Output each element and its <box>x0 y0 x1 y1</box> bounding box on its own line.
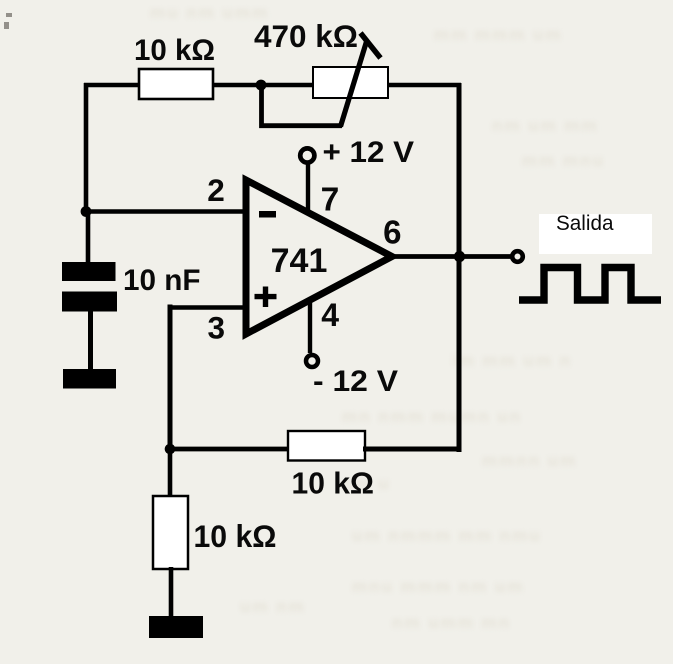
potentiometer P1 wiper end tick <box>361 33 381 58</box>
wire: pin 3 drop to divider node <box>168 305 173 453</box>
svg-text:741: 741 <box>271 242 328 280</box>
svg-text:mnu mmm nm um: mnu mmm nm um <box>352 577 524 596</box>
capacitor C 10 nF top plate <box>62 262 116 281</box>
svg-text:10 kΩ: 10 kΩ <box>292 466 375 501</box>
svg-text:mmnn um: mmnn um <box>482 451 577 470</box>
wire: pin 4 supply wire <box>308 298 312 353</box>
svg-text:4: 4 <box>321 297 339 333</box>
svg-text:10 nF: 10 nF <box>123 264 201 297</box>
wire: left vertical from top corner down to inverting-input node <box>84 83 89 214</box>
terminal: +12V open circle <box>300 148 314 162</box>
ground (capacitor) <box>63 369 116 389</box>
wire: divider resistor to ground <box>169 567 174 618</box>
svg-text:470 kΩ: 470 kΩ <box>254 18 358 54</box>
svg-text:+ 12 V: + 12 V <box>323 136 415 169</box>
resistor R 10 kΩ (top feedback) <box>139 69 213 99</box>
svg-text:6: 6 <box>383 214 401 251</box>
svg-text:7: 7 <box>321 182 340 219</box>
wire: right vertical from top corner down to bottom feedback corner <box>457 83 462 452</box>
svg-text:um nmmm mm nmu: um nmmm mm nmu <box>352 526 542 545</box>
svg-text:3: 3 <box>208 310 226 346</box>
potentiometer P1 470 kΩ body <box>313 67 388 98</box>
svg-text:10 kΩ: 10 kΩ <box>134 34 215 67</box>
svg-text:um nm: um nm <box>240 597 306 616</box>
node: output junction dot <box>454 251 465 262</box>
node: divider junction dot <box>165 444 176 455</box>
op-amp U1 non-inverting input plus sign <box>255 287 277 308</box>
wire: top horizontal net from left corner to right corner <box>84 83 461 88</box>
svg-text:Salida: Salida <box>556 212 614 235</box>
square wave output symbol <box>519 268 661 301</box>
wire: feedback resistor to right vertical <box>363 447 462 452</box>
potentiometer P1 wiper arm <box>341 42 367 127</box>
svg-text:- 12 V: - 12 V <box>313 365 398 398</box>
node: inverting input junction dot <box>81 206 92 217</box>
wire: pin 3 input wire <box>169 305 250 310</box>
svg-text:mm mmm um: mm mmm um <box>434 25 563 44</box>
white label panel behind Salida <box>539 214 652 254</box>
wire: divider node down to lower resistor <box>168 449 173 498</box>
svg-text:mu nm umm: mu nm umm <box>150 3 269 22</box>
op-amp U1 741 body <box>246 180 392 334</box>
terminal: -12V open circle <box>306 355 318 367</box>
wire: pin 2 input wire <box>84 209 248 213</box>
svg-text:mn nmm mumn un: mn nmm mumn un <box>342 407 522 426</box>
wire: capacitor to ground <box>88 310 93 370</box>
svg-text:im mm um n: im mm um n <box>452 351 572 370</box>
svg-text:10 kΩ: 10 kΩ <box>194 518 277 554</box>
node A junction dot (10k / 470k / wiper tap) <box>256 80 267 91</box>
wire: pin 7 supply wire <box>306 161 310 215</box>
svg-text:nm umm mn: nm umm mn <box>392 613 511 632</box>
wire: from inverting node down to capacitor <box>86 212 91 267</box>
svg-text:mm mnu: mm mnu <box>522 151 605 170</box>
resistor R 10 kΩ (bottom feedback) <box>288 431 365 461</box>
capacitor C 10 nF bottom plate <box>62 292 117 312</box>
wire: divider node to feedback resistor <box>168 447 290 452</box>
wire: output wire from op-amp apex to terminal <box>391 254 511 259</box>
faint page bleed-through texture (decorative) <box>150 3 605 632</box>
svg-text:2: 2 <box>207 172 225 208</box>
wire: drop from node A down and right to potentiometer wiper <box>262 85 343 126</box>
ground (divider resistor) <box>149 616 203 638</box>
svg-text:nm um mm: nm um mm <box>492 116 599 135</box>
terminal: output open circle <box>512 251 523 262</box>
resistor R 10 kΩ (divider to ground) <box>153 496 188 569</box>
op-amp U1 inverting input minus sign <box>259 211 276 218</box>
